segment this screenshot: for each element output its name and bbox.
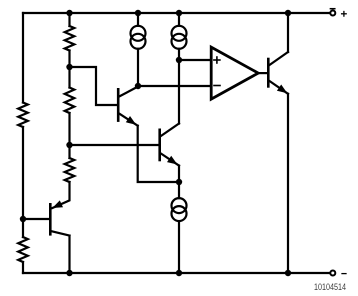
- node I2 output: [176, 57, 182, 63]
- wire I3 to bottom rail: [178, 221, 180, 273]
- resistor R3: [65, 26, 75, 51]
- wire R3 to R4: [68, 51, 70, 88]
- wire current source I1 top lead: [137, 13, 139, 26]
- wire Q2 base path: [70, 144, 159, 146]
- wire Q4 collector to top rail: [287, 13, 289, 52]
- wire R4 to R5: [68, 113, 70, 158]
- node R4 bottom: [66, 142, 72, 148]
- label +: [342, 12, 347, 17]
- terminal -: [330, 271, 335, 276]
- wire op-amp output: [258, 72, 267, 74]
- node I1 output: [135, 83, 141, 89]
- current source I1: [131, 26, 146, 41]
- resistor R4: [65, 88, 75, 114]
- wire current source I2 top lead: [178, 13, 180, 26]
- wire Q3 base path: [23, 218, 49, 220]
- node bottom rail x288: [285, 270, 291, 276]
- node top rail x69: [66, 10, 72, 16]
- wire top rail: [23, 12, 330, 14]
- transistor Q3: [50, 200, 69, 235]
- node R3 bottom: [66, 64, 72, 70]
- node Q3 base: [20, 216, 26, 222]
- resistor R1: [18, 103, 28, 128]
- wire Q1 base path: [70, 67, 118, 105]
- node bottom rail x69: [66, 270, 72, 276]
- wire Q1 emitter down: [138, 126, 179, 182]
- resistor R5: [65, 158, 75, 182]
- op-amp U1: [211, 47, 258, 99]
- node bottom rail x179: [176, 270, 182, 276]
- wire second vertical top segment: [68, 13, 70, 26]
- wire I1 bottom lead to node: [137, 49, 139, 86]
- node top rail x138: [135, 10, 141, 16]
- wire node to Q2 collector: [178, 60, 180, 124]
- wire op-amp inverting input: [138, 85, 211, 87]
- current source I3: [172, 198, 187, 213]
- tick above + terminal: [330, 8, 334, 10]
- wire R5 to Q3 emitter: [52, 182, 69, 208]
- transistor Q4: [268, 52, 288, 94]
- wire node to current source I3: [178, 182, 180, 198]
- terminal +: [330, 11, 335, 16]
- wire Q3 collector to bottom rail: [68, 236, 70, 273]
- transistor Q2: [160, 124, 179, 166]
- wire left vertical middle segment: [22, 127, 24, 237]
- wire I2 bottom lead to node: [178, 49, 180, 60]
- wire op-amp non-inverting input: [179, 59, 211, 61]
- resistor R2: [18, 237, 28, 262]
- wire Q2 emitter to node: [178, 166, 180, 182]
- node top rail x288: [285, 10, 291, 16]
- node emitters join: [176, 179, 182, 185]
- wire left vertical upper segment: [22, 13, 24, 103]
- svg-text:10104514: 10104514: [314, 282, 346, 292]
- wire left vertical lower segment: [22, 262, 24, 273]
- label -: [342, 273, 346, 275]
- wire bottom rail: [23, 272, 330, 274]
- node top rail x179: [176, 10, 182, 16]
- current source I2: [172, 26, 187, 41]
- wire Q4 emitter to bottom rail: [287, 94, 289, 273]
- transistor Q1: [118, 87, 138, 126]
